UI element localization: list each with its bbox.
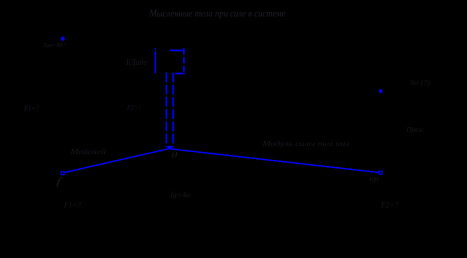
svg-text:F1=?: F1=? bbox=[63, 201, 81, 210]
svg-text:fg+4а: fg+4а bbox=[171, 190, 191, 199]
svg-text:Мысленные тела при силе в сист: Мысленные тела при силе в системе bbox=[149, 8, 286, 18]
svg-text:F2=?: F2=? bbox=[126, 103, 142, 112]
svg-text:F2=?: F2=? bbox=[380, 201, 398, 210]
svg-text:θ: θ bbox=[172, 151, 178, 160]
svg-text:F1=?: F1=? bbox=[24, 103, 40, 113]
svg-text:ЕДиде: ЕДиде bbox=[125, 58, 147, 67]
svg-text:пр: пр bbox=[370, 175, 380, 183]
svg-text:Sм=М?: Sм=М? bbox=[43, 42, 67, 49]
svg-text:Модуль силы тел низ: Модуль силы тел низ bbox=[261, 140, 349, 148]
svg-text:Мейсней: Мейсней bbox=[69, 147, 106, 156]
svg-text:Sα (?): Sα (?) bbox=[410, 78, 431, 87]
svg-text:Пряж: Пряж bbox=[406, 126, 425, 134]
